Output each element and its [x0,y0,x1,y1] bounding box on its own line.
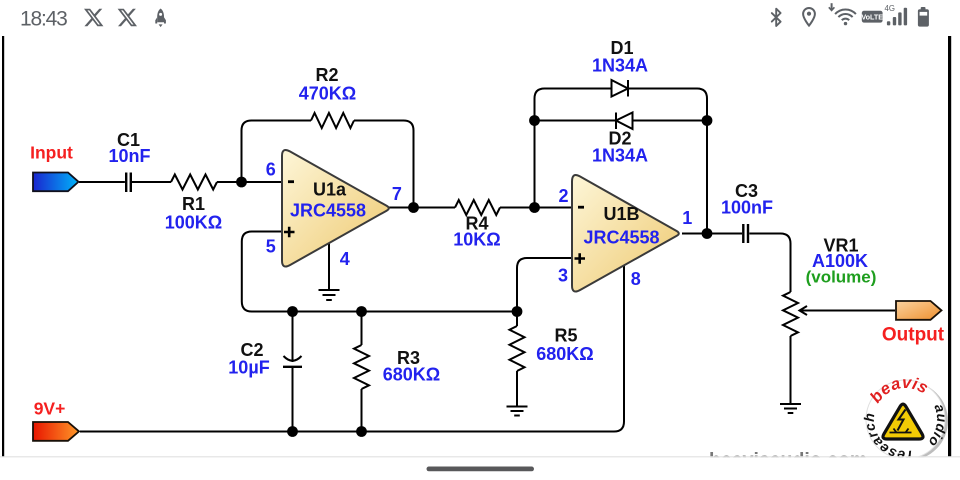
svg-text:10nF: 10nF [108,146,150,166]
op-amp U1B [572,175,679,292]
wire feedback loop R2 [242,121,312,183]
STATUS BAR [20,3,929,30]
wire R5 branch top [516,312,518,327]
wire VR1 wiper to output [800,310,895,312]
svg-text:100nF: 100nF [721,198,773,218]
svg-text:4G: 4G [885,4,895,13]
capacitor C2 flat plate [283,366,302,368]
wire D1 to right vertical [628,89,707,234]
diode D1 [612,80,629,97]
node bias C2 [287,306,298,317]
node input-R1 junction [236,177,247,188]
svg-text:7: 7 [392,184,402,204]
diode D2 [616,113,633,130]
node bias R3 [356,306,367,317]
svg-text:R1: R1 [182,194,205,214]
icon location [803,8,815,26]
wire U1B pin3 [517,258,572,312]
beavis logo [861,374,950,464]
VR1 wiper arrow [800,306,808,315]
node U1B output [702,228,713,239]
icon battery [918,7,929,27]
svg-text:U1a: U1a [313,180,347,200]
icon bluetooth [772,9,781,26]
svg-text:9V+: 9V+ [34,399,66,419]
U1a inverting input marker [288,180,294,183]
capacitor C2 curved plate [284,356,302,361]
svg-text:5: 5 [266,237,276,257]
U1B inverting input marker [578,206,584,209]
icon X app 1 [84,9,103,27]
svg-text:4: 4 [340,249,350,269]
svg-text:680KΩ: 680KΩ [536,344,593,364]
svg-text:Output: Output [882,325,945,346]
wire U1a pin4 stem [328,243,330,290]
node 9V C2 [287,426,298,437]
node U1a output [408,202,419,213]
wire C2 branch top [292,312,294,363]
ground VR1 [780,404,801,413]
potentiometer VR1 zigzag [783,292,798,336]
bottom white band [0,457,960,480]
node bias R5 [512,306,523,317]
home pill [427,467,535,472]
9V arrow [33,422,79,441]
resistor R1 [171,175,217,190]
U1a non-inverting input marker [284,227,295,238]
icon wifi with down arrow [829,3,856,20]
wire R4 to U1B pin2 [500,207,572,209]
svg-text:3: 3 [558,266,568,286]
node D2 right [702,115,713,126]
svg-text:1N34A: 1N34A [592,146,648,166]
image frame left edge [2,36,4,457]
wire C2 bottom [292,367,294,432]
ground U1a pin4 [319,290,340,300]
wire R1 to U1a pin6 [217,181,282,183]
svg-text:18:43: 18:43 [20,8,67,31]
icon X app 2 [118,9,137,27]
resistor R2 [311,113,354,128]
svg-text:JRC4558: JRC4558 [290,201,366,221]
U1B non-inverting input marker [575,253,586,263]
output arrow [896,301,942,320]
wire R5 to ground [516,371,518,407]
icon rocket app [155,9,166,28]
svg-text:1N34A: 1N34A [592,56,648,76]
wire U1B output to C3 [682,233,742,235]
capacitor C3 [743,224,748,243]
wire R3 bottom [361,389,363,432]
image frame right edge [948,36,951,457]
icon signal bars [887,8,907,26]
svg-text:2: 2 [558,186,568,206]
warning triangle [883,404,923,439]
svg-text:R5: R5 [554,326,577,346]
wire U1a output row [389,207,455,209]
svg-text:10KΩ: 10KΩ [453,230,500,250]
capacitor C1 [126,173,131,193]
wire input row [79,181,125,183]
node 9V R3 [356,426,367,437]
wire 9V row and U1B pin8 [80,265,624,432]
wire diode loop left and D1 top [535,89,612,208]
input arrow [33,173,79,192]
node U1B pin2 junction [529,202,540,213]
svg-text:6: 6 [266,160,276,180]
resistor R5 [510,326,525,371]
wire R3 branch top [361,312,363,346]
icon VoLTE badge [861,11,883,23]
svg-text:(volume): (volume) [806,268,877,287]
svg-text:8: 8 [631,269,641,289]
svg-text:Input: Input [30,143,73,163]
wire VR1 to ground [790,336,792,404]
bottom divider [0,456,960,457]
SCHEMATIC WIRES [79,89,895,432]
svg-text:680KΩ: 680KΩ [383,365,440,385]
svg-text:100KΩ: 100KΩ [165,213,222,233]
wire R2 right to U1a output [354,121,414,208]
op-amp U1a [282,150,389,267]
svg-text:VoLTE: VoLTE [861,13,883,22]
ground R5 [507,407,528,416]
wire D2 row [535,120,708,122]
svg-text:R2: R2 [315,65,338,85]
svg-text:1: 1 [682,208,692,228]
svg-text:10µF: 10µF [228,358,269,378]
node D2 left [529,115,540,126]
wire U1a pin5 bias loop [242,232,517,312]
resistor R3 [354,345,369,389]
wire C3 to VR1 [749,234,790,293]
resistor R4 [455,200,500,215]
svg-text:JRC4558: JRC4558 [583,228,659,248]
svg-text:470KΩ: 470KΩ [299,84,356,104]
svg-text:U1B: U1B [603,204,639,224]
